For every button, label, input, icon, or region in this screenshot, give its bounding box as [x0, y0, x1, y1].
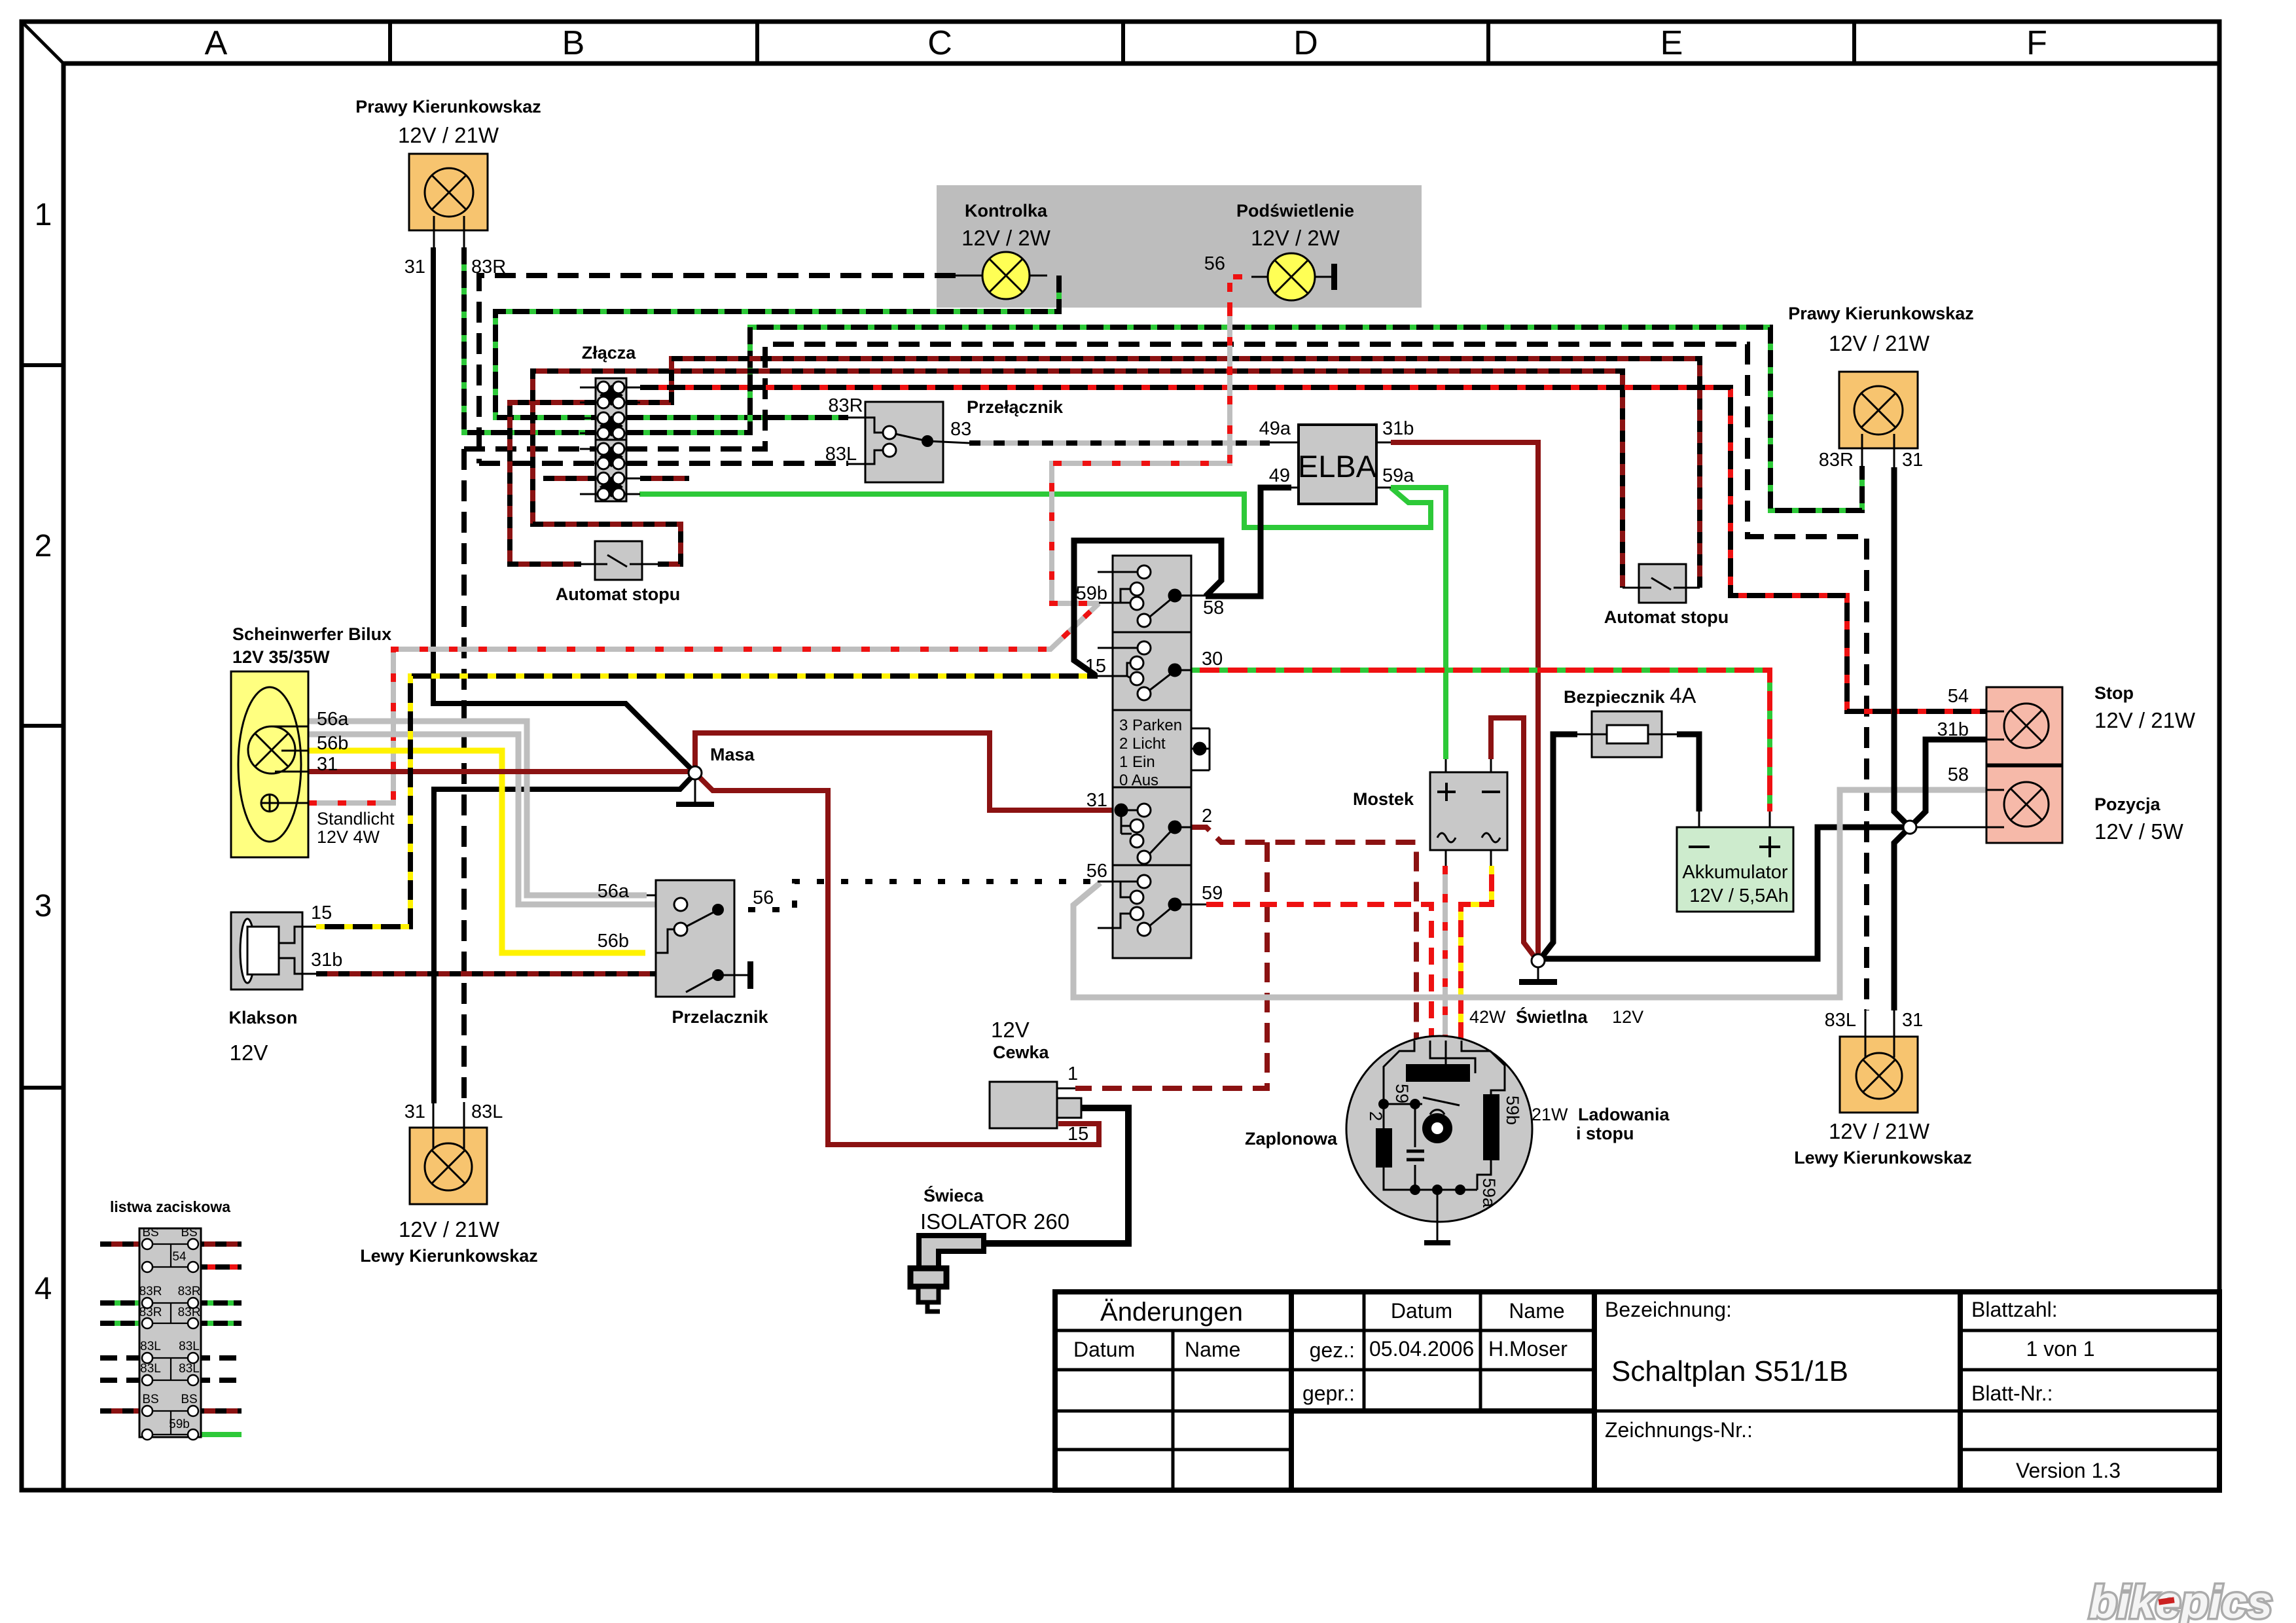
Bezpiecznik 4A fuse [1564, 683, 1696, 757]
svg-text:56: 56 [1086, 861, 1107, 882]
wire Mostek AC left to magneto (gray-red) [1443, 866, 1448, 1047]
svg-text:56a: 56a [317, 709, 349, 730]
svg-text:31b: 31b [1382, 418, 1414, 439]
wire listwa 54 right (red-black) [193, 1264, 242, 1270]
wire H2 Kontrolka right lead to Zlacza R3 (green-black) [495, 276, 1059, 418]
svg-text:Version 1.3: Version 1.3 [2016, 1459, 2121, 1482]
listwa zaciskowa terminal strip [100, 1198, 242, 1440]
svg-text:83: 83 [950, 419, 971, 440]
svg-text:Automat stopu: Automat stopu [1604, 607, 1729, 627]
svg-text:54: 54 [1948, 686, 1969, 707]
svg-text:2: 2 [35, 529, 52, 563]
svg-text:2: 2 [1366, 1111, 1386, 1121]
Automat stopu right [1604, 564, 1729, 627]
svg-text:12V / 21W: 12V / 21W [1829, 331, 1930, 355]
svg-text:1: 1 [35, 198, 52, 232]
svg-text:ISOLATOR 260: ISOLATOR 260 [920, 1209, 1069, 1234]
svg-text:Złącza: Złącza [582, 343, 637, 363]
lamp right turn front (Prawy Kierunkowskaz top-left) [355, 97, 541, 277]
svg-text:Standlicht: Standlicht [317, 809, 395, 829]
svg-text:59b: 59b [1076, 583, 1107, 604]
wire Zlacza R7 right stub (maroon-black) [640, 476, 689, 481]
svg-text:12V / 5W: 12V / 5W [2094, 819, 2184, 844]
svg-text:56b: 56b [317, 733, 348, 754]
lamp left turn front (Lewy Kierunkowskaz bottom-left) [360, 1101, 538, 1266]
switch section 2 (15/30) [1098, 641, 1191, 700]
svg-text:12V 4W: 12V 4W [317, 827, 380, 847]
lamp right turn rear (Prawy Kierunkowskaz top-right) [1788, 304, 1974, 471]
svg-text:Name: Name [1185, 1338, 1240, 1361]
svg-text:59: 59 [1202, 883, 1223, 904]
wire 83L tap up to H4 bus (black dashed) [626, 344, 1867, 1010]
svg-text:Lewy Kierunkowskaz: Lewy Kierunkowskaz [360, 1246, 538, 1266]
svg-text:Zaplonowa: Zaplonowa [1245, 1129, 1338, 1149]
svg-text:56b: 56b [598, 931, 629, 952]
svg-text:12V / 21W: 12V / 21W [1829, 1119, 1930, 1143]
switch section 4 (31/2) [1115, 804, 1191, 864]
svg-text:2: 2 [1202, 806, 1212, 827]
wire Podswietlenie 56 to switch 59b (red dashed / gray-red) [1230, 277, 1251, 308]
svg-text:Blatt-Nr.:: Blatt-Nr.: [1971, 1382, 2053, 1405]
bikepics watermark [2089, 1577, 2272, 1623]
svg-text:58: 58 [1948, 764, 1969, 785]
svg-text:12V / 21W: 12V / 21W [399, 1217, 500, 1241]
svg-text:30: 30 [1202, 649, 1223, 669]
svg-text:Änderungen: Änderungen [1100, 1298, 1243, 1327]
svg-text:83R: 83R [471, 257, 506, 277]
svg-text:1 von 1: 1 von 1 [2026, 1337, 2095, 1361]
svg-text:1: 1 [1067, 1063, 1078, 1084]
svg-text:83L: 83L [140, 1340, 161, 1353]
svg-text:i stopu: i stopu [1576, 1124, 1634, 1143]
wire Zlacza R7 left stub (maroon-black) [543, 476, 596, 481]
svg-text:31b: 31b [1937, 719, 1969, 740]
wire Cewka HT to spark plug (black) [985, 1108, 1128, 1243]
svg-text:Prawy Kierunkowskaz: Prawy Kierunkowskaz [1788, 304, 1974, 323]
wire ELBA 49 to switch 58 (black) [1206, 488, 1291, 596]
wire Masa to Cewka 15 (maroon) [699, 777, 1099, 1145]
wire Zlacza R2 right to right Automat stopu (maroon-black) [626, 359, 1700, 588]
svg-text:49a: 49a [1259, 418, 1291, 439]
svg-text:31: 31 [1902, 450, 1923, 471]
svg-text:15: 15 [1067, 1124, 1088, 1145]
svg-text:D: D [1293, 24, 1318, 62]
wire stop lamp 31b to junction (black) [1912, 740, 1986, 825]
wire left Automat stopu right side up-over (maroon-black) [533, 371, 1623, 588]
junction right lamps [1903, 821, 1916, 834]
wire headlight 56b to Przelacznik 56b (yellow) [308, 751, 645, 953]
Mostek rectifier [1353, 759, 1507, 866]
wire switch 2 to magneto 59 (maroon-black dashed) [1191, 827, 1416, 1047]
wire listwa 83L row2 (black dashed) [100, 1378, 242, 1383]
svg-text:4: 4 [35, 1272, 52, 1306]
svg-text:Blattzahl:: Blattzahl: [1971, 1298, 2058, 1321]
Klakson horn [228, 902, 342, 1065]
svg-text:BS: BS [142, 1393, 158, 1406]
svg-text:Schaltplan S51/1B: Schaltplan S51/1B [1611, 1355, 1848, 1387]
svg-text:BS: BS [181, 1393, 197, 1406]
svg-text:C: C [927, 24, 952, 62]
svg-text:83L: 83L [140, 1362, 161, 1376]
svg-text:83L: 83L [179, 1362, 200, 1376]
Swieca spark plug [910, 1185, 1069, 1311]
svg-text:83R: 83R [178, 1306, 201, 1319]
Przelacznik turn-signal switch (top) [825, 395, 1064, 482]
svg-text:31: 31 [404, 257, 425, 277]
wire Mostek minus to ground junction (maroon) [1491, 718, 1535, 958]
svg-text:H.Moser: H.Moser [1488, 1337, 1568, 1361]
svg-text:A: A [205, 24, 228, 62]
Masa ground junction [676, 745, 755, 807]
svg-text:59a: 59a [1382, 465, 1414, 486]
svg-text:12V / 5,5Ah: 12V / 5,5Ah [1689, 885, 1789, 906]
svg-text:12V 35/35W: 12V 35/35W [232, 647, 330, 667]
svg-text:Klakson: Klakson [228, 1008, 297, 1027]
svg-text:Zeichnungs-Nr.:: Zeichnungs-Nr.: [1605, 1418, 1753, 1442]
Kontrolka lamp [956, 201, 1051, 299]
svg-text:ELBA: ELBA [1298, 449, 1377, 484]
wire branch to Cewka 1 (maroon-black dashed) [1075, 842, 1267, 1088]
svg-text:1 Ein: 1 Ein [1119, 753, 1155, 771]
svg-text:15: 15 [311, 902, 332, 923]
svg-text:59b: 59b [169, 1418, 190, 1431]
svg-text:59b: 59b [1503, 1096, 1522, 1125]
svg-text:59a: 59a [1479, 1178, 1499, 1208]
wire ELBA 31b to ground junction (maroon) [1391, 442, 1538, 955]
wire 83L branch down to bottom-left lamp (black dashed) [464, 449, 596, 1103]
wire 83R top-left lamp to Zlacza R4 (green-black) [464, 247, 596, 433]
svg-text:gez.:: gez.: [1310, 1338, 1355, 1362]
wire H7 Zlacza R1 to Stop lamp 54 (black-red) [640, 387, 1986, 711]
Cewka ignition coil [990, 1018, 1088, 1145]
svg-text:B: B [562, 24, 585, 62]
switch section 1 (59b/58) [1098, 565, 1206, 627]
wire headlight 56a to Przelacznik 56a (double gray) [308, 721, 647, 895]
svg-text:12V / 21W: 12V / 21W [2094, 708, 2196, 732]
wire gray 42W bus from switch 56 to Pozycja 58 [1073, 790, 1986, 997]
ground junction near battery [1519, 954, 1557, 985]
svg-text:12V / 21W: 12V / 21W [398, 123, 499, 147]
svg-text:83L: 83L [1825, 1010, 1856, 1031]
svg-text:83R: 83R [1819, 450, 1854, 471]
svg-text:49: 49 [1269, 465, 1290, 486]
switch section 5 (56/59) [1098, 875, 1206, 936]
Podswietlenie lamp [1204, 201, 1354, 300]
svg-text:31b: 31b [311, 950, 342, 971]
svg-text:Prawy Kierunkowskaz: Prawy Kierunkowskaz [355, 97, 541, 116]
ELBA flasher unit [1259, 418, 1415, 504]
svg-text:Automat stopu: Automat stopu [556, 584, 680, 604]
wire Zlacza R8 green to ELBA 59a [639, 488, 1431, 527]
instrument panel (Kontrolka / Podswietlenie) [937, 185, 1422, 308]
svg-text:3: 3 [35, 889, 52, 923]
svg-text:05.04.2006: 05.04.2006 [1369, 1337, 1474, 1361]
svg-text:12V / 2W: 12V / 2W [1251, 226, 1340, 250]
wire Przelacznik 56 to switch 56 (fine black dash) [724, 882, 1098, 910]
wire switch 30 to battery plus (red-green) [1191, 670, 1770, 811]
lamp left turn rear (Lewy Kierunkowskaz bottom-right) [1794, 1009, 1972, 1168]
svg-text:BS: BS [181, 1226, 197, 1240]
wire 83L bus to Przelacznik 83L (black dashed) [479, 461, 848, 466]
svg-text:Scheinwerfer Bilux: Scheinwerfer Bilux [232, 624, 391, 644]
svg-text:31: 31 [317, 754, 338, 775]
title block [1055, 1292, 2219, 1490]
wire switch 58 loop to pin 15 (black) [1074, 541, 1221, 675]
wire 31 from top-right lamp to Masa (black) [433, 247, 691, 769]
svg-text:83R: 83R [828, 395, 863, 416]
wire Masa to bottom-left lamp 31 (black) [434, 777, 691, 1103]
svg-text:BS: BS [142, 1226, 158, 1240]
svg-text:31: 31 [1902, 1010, 1923, 1031]
svg-text:Kontrolka: Kontrolka [965, 201, 1048, 221]
svg-text:12V: 12V [991, 1018, 1030, 1042]
svg-text:E: E [1660, 24, 1683, 62]
svg-text:Przełącznik: Przełącznik [967, 397, 1064, 417]
wire headlight 31 to Masa (maroon) [308, 769, 690, 774]
Akkumulator battery [1677, 811, 1793, 912]
svg-text:0 Aus: 0 Aus [1119, 772, 1158, 789]
wire listwa BS right (maroon-black) [193, 1241, 242, 1247]
svg-text:56: 56 [1204, 253, 1225, 274]
wire fuse right to battery minus (black) [1677, 734, 1699, 811]
wire Standlicht to switch 59b (gray-red) [308, 603, 1099, 803]
Zlacza connector module A [580, 378, 640, 440]
wire listwa BS left (maroon-black) [100, 1241, 147, 1247]
row labels [35, 198, 52, 1306]
svg-text:Masa: Masa [710, 745, 755, 764]
svg-text:Cewka: Cewka [993, 1043, 1050, 1062]
wire H3 83R bus to top-right lamp (green-black) [626, 327, 1862, 510]
svg-text:56: 56 [753, 887, 774, 908]
svg-text:Datum: Datum [1073, 1338, 1135, 1361]
wire listwa 83L row1 (black dashed) [100, 1355, 242, 1361]
wire Klakson 15 to switch 15 (black-yellow) [316, 676, 1098, 927]
column labels [205, 24, 2047, 62]
wire fuse left to ground junction (black) [1542, 734, 1577, 957]
wire listwa 83R row1 (green-black) [100, 1300, 242, 1306]
switch section 3 position legend [1119, 717, 1182, 789]
svg-text:12V: 12V [230, 1041, 268, 1065]
svg-text:59: 59 [1392, 1084, 1412, 1103]
svg-text:Bezeichnung:: Bezeichnung: [1605, 1298, 1732, 1321]
wire ELBA 59a to Mostek plus (green) [1391, 488, 1446, 759]
wire Przelacznik 83 to ELBA 49a (gray-black) [969, 440, 1270, 446]
ignition switch block [1113, 556, 1191, 958]
svg-text:Podświetlenie: Podświetlenie [1236, 201, 1354, 221]
svg-text:15: 15 [1085, 656, 1106, 677]
svg-text:21W Ladowania: 21W Ladowania [1532, 1105, 1670, 1124]
svg-text:Świeca: Świeca [924, 1185, 984, 1205]
wire H1 Kontrolka to 83L bus (black dashed) [479, 276, 956, 463]
svg-text:listwa zaciskowa: listwa zaciskowa [110, 1198, 230, 1215]
wire switch 59 to magneto (red dashed) [1206, 904, 1431, 1047]
svg-text:83R: 83R [178, 1285, 201, 1298]
wire listwa 83R row2 (green-black) [100, 1321, 242, 1326]
svg-text:Name: Name [1509, 1299, 1564, 1323]
svg-text:58: 58 [1203, 597, 1224, 618]
svg-text:54: 54 [172, 1250, 187, 1264]
svg-text:2 Licht: 2 Licht [1119, 735, 1166, 753]
svg-text:Pozycja: Pozycja [2094, 794, 2161, 814]
svg-text:3 Parken: 3 Parken [1119, 717, 1182, 734]
Pozycja lamp [1948, 764, 2184, 844]
svg-text:F: F [2026, 24, 2047, 62]
svg-text:gepr.:: gepr.: [1302, 1382, 1355, 1405]
svg-text:31: 31 [404, 1101, 425, 1122]
svg-text:83L: 83L [471, 1101, 503, 1122]
svg-text:Lewy Kierunkowskaz: Lewy Kierunkowskaz [1794, 1148, 1972, 1168]
svg-text:Przelacznik: Przelacznik [672, 1007, 768, 1027]
svg-text:Akkumulator: Akkumulator [1682, 862, 1788, 883]
Zlacza connector module B [580, 440, 640, 501]
svg-text:12V / 2W: 12V / 2W [961, 226, 1051, 250]
svg-text:56a: 56a [598, 881, 630, 902]
Przelacznik dimmer switch (lower) [598, 880, 774, 1027]
Stop lamp [1937, 683, 2196, 764]
svg-text:83L: 83L [179, 1340, 200, 1353]
svg-text:Mostek: Mostek [1353, 789, 1414, 809]
svg-text:83R: 83R [139, 1285, 162, 1298]
wire junction to Pozycja lower pin (thin) [1915, 827, 1986, 829]
svg-text:Stop: Stop [2094, 683, 2134, 703]
svg-text:31: 31 [1086, 790, 1107, 811]
wire listwa 59b right (green) [193, 1432, 242, 1437]
Automat stopu left [556, 541, 680, 604]
wire listwa BS bottom (maroon-black) [100, 1408, 242, 1414]
svg-text:Datum: Datum [1391, 1299, 1452, 1323]
wire Klakson 31b to Przelacznik (maroon-black) [316, 971, 712, 976]
wire Zlacza R2 left to left Automat stopu (maroon-black) [510, 402, 596, 564]
svg-text:83L: 83L [825, 444, 857, 465]
wire Mostek AC right to magneto 59b (red-yellow) [1461, 866, 1492, 1047]
headlight Scheinwerfer Bilux [231, 624, 395, 857]
svg-text:42W Świetlna 12V: 42W Świetlna 12V [1469, 1007, 1643, 1027]
wire Masa up-over to switch 31 (maroon) [695, 733, 1121, 810]
svg-text:Bezpiecznik 4A: Bezpiecznik 4A [1564, 683, 1696, 707]
wire ground bus to right lamps junction (black) [1544, 827, 1905, 959]
Zaplonowa magneto [1245, 1036, 1532, 1245]
wire top-right lamp 31 down through junction to bottom lamp (black) [1894, 467, 1907, 1010]
wire Zlacza R3 to Przelacznik 83R (green-black) [626, 415, 848, 420]
svg-text:bikepics: bikepics [2089, 1577, 2272, 1623]
